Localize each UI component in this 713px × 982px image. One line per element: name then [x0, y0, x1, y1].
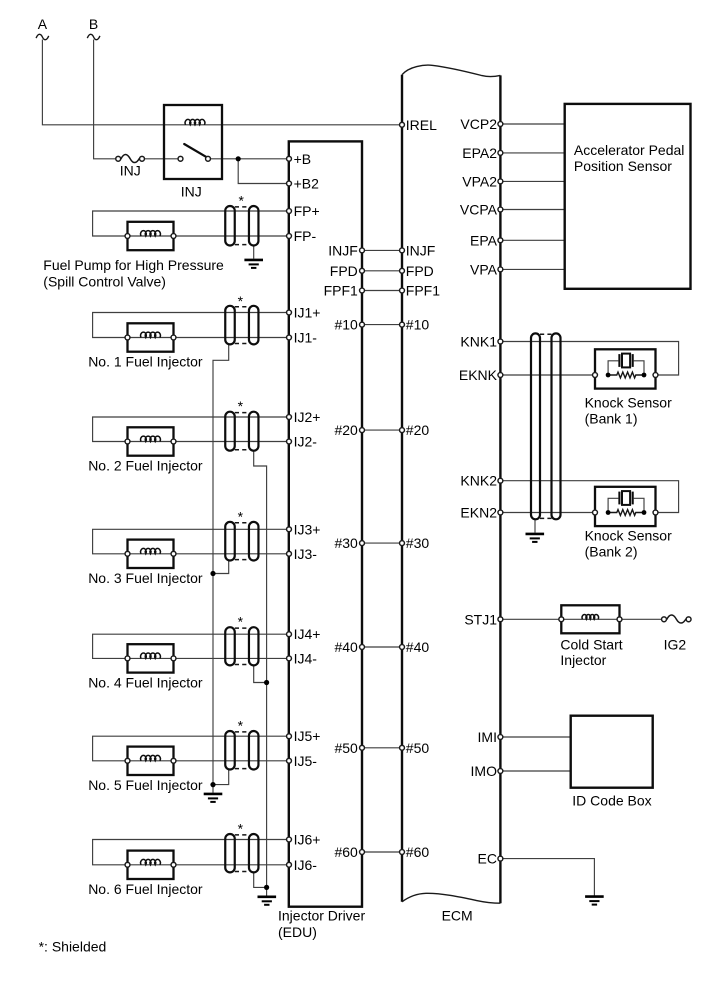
- svg-text:IJ3-: IJ3-: [294, 546, 318, 562]
- svg-text:IJ4+: IJ4+: [294, 626, 321, 642]
- svg-text:Injector: Injector: [560, 652, 606, 668]
- svg-text:IREL: IREL: [406, 117, 437, 133]
- svg-text:EC: EC: [478, 851, 497, 867]
- svg-text:#50: #50: [334, 740, 358, 756]
- svg-text:INJF: INJF: [406, 242, 436, 258]
- svg-text:+B: +B: [294, 151, 312, 167]
- svg-text:VPA2: VPA2: [462, 173, 497, 189]
- svg-text:#20: #20: [406, 422, 430, 438]
- svg-text:#10: #10: [334, 317, 358, 333]
- svg-text:ECM: ECM: [442, 908, 473, 924]
- svg-text:EPA2: EPA2: [462, 145, 497, 161]
- svg-text:VCPA: VCPA: [460, 202, 498, 218]
- svg-text:KNK1: KNK1: [460, 334, 497, 350]
- svg-text:*: Shielded: *: Shielded: [39, 939, 107, 955]
- svg-text:*: *: [238, 293, 244, 309]
- svg-text:No. 2 Fuel Injector: No. 2 Fuel Injector: [88, 458, 203, 474]
- svg-text:#60: #60: [334, 844, 358, 860]
- svg-text:Accelerator Pedal: Accelerator Pedal: [574, 142, 685, 158]
- svg-text:+B2: +B2: [294, 176, 320, 192]
- svg-text:KNK2: KNK2: [460, 473, 497, 489]
- svg-text:IJ5-: IJ5-: [294, 753, 318, 769]
- svg-text:FPF1: FPF1: [406, 283, 440, 299]
- svg-text:FP-: FP-: [294, 228, 317, 244]
- svg-text:EKNK: EKNK: [459, 367, 498, 383]
- svg-text:No. 1 Fuel Injector: No. 1 Fuel Injector: [88, 354, 203, 370]
- svg-text:Knock Sensor: Knock Sensor: [585, 395, 672, 411]
- svg-text:IJ6+: IJ6+: [294, 832, 321, 848]
- svg-text:Cold Start: Cold Start: [560, 636, 622, 652]
- svg-text:IG2: IG2: [664, 636, 687, 652]
- svg-text:#50: #50: [406, 740, 430, 756]
- svg-text:IJ1-: IJ1-: [294, 330, 318, 346]
- svg-text:IJ4-: IJ4-: [294, 650, 318, 666]
- svg-text:No. 5 Fuel Injector: No. 5 Fuel Injector: [88, 777, 203, 793]
- svg-text:FPD: FPD: [406, 263, 434, 279]
- svg-text:*: *: [238, 398, 244, 414]
- svg-text:*: *: [238, 193, 244, 209]
- svg-text:*: *: [238, 820, 244, 836]
- svg-text:No. 4 Fuel Injector: No. 4 Fuel Injector: [88, 674, 203, 690]
- svg-text:*: *: [238, 613, 244, 629]
- svg-text:#60: #60: [406, 844, 430, 860]
- svg-text:#20: #20: [334, 422, 358, 438]
- svg-text:#10: #10: [406, 317, 430, 333]
- svg-text:#40: #40: [334, 639, 358, 655]
- svg-text:IJ3+: IJ3+: [294, 521, 321, 537]
- svg-text:(Spill Control Valve): (Spill Control Valve): [43, 273, 166, 289]
- svg-text:(Bank 2): (Bank 2): [585, 543, 638, 559]
- svg-text:EPA: EPA: [470, 232, 498, 248]
- svg-text:STJ1: STJ1: [464, 611, 497, 627]
- svg-text:Knock Sensor: Knock Sensor: [585, 528, 672, 544]
- svg-text:FPD: FPD: [330, 263, 358, 279]
- svg-text:VCP2: VCP2: [460, 116, 497, 132]
- svg-text:EKN2: EKN2: [460, 505, 497, 521]
- svg-text:INJ: INJ: [181, 183, 202, 199]
- svg-text:No. 6 Fuel Injector: No. 6 Fuel Injector: [88, 881, 203, 897]
- svg-text:ID Code Box: ID Code Box: [572, 793, 651, 809]
- svg-text:*: *: [238, 508, 244, 524]
- svg-text:FPF1: FPF1: [324, 283, 358, 299]
- svg-text:VPA: VPA: [470, 261, 498, 277]
- svg-text:IJ6-: IJ6-: [294, 857, 318, 873]
- svg-text:IJ5+: IJ5+: [294, 728, 321, 744]
- svg-text:IMI: IMI: [478, 729, 497, 745]
- svg-text:#30: #30: [334, 535, 358, 551]
- svg-text:INJ: INJ: [120, 162, 141, 178]
- svg-text:IJ2+: IJ2+: [294, 409, 321, 425]
- svg-text:No. 3 Fuel Injector: No. 3 Fuel Injector: [88, 570, 203, 586]
- svg-text:IJ1+: IJ1+: [294, 305, 321, 321]
- svg-text:(EDU): (EDU): [278, 924, 317, 940]
- svg-text:Position Sensor: Position Sensor: [574, 158, 672, 174]
- svg-text:Fuel Pump for High Pressure: Fuel Pump for High Pressure: [43, 257, 224, 273]
- svg-text:#40: #40: [406, 639, 430, 655]
- svg-text:FP+: FP+: [294, 203, 320, 219]
- svg-text:IJ2-: IJ2-: [294, 434, 318, 450]
- svg-text:B: B: [89, 16, 98, 32]
- svg-text:#30: #30: [406, 535, 430, 551]
- svg-text:Injector Driver: Injector Driver: [278, 908, 365, 924]
- svg-text:IMO: IMO: [471, 763, 498, 779]
- svg-text:(Bank 1): (Bank 1): [585, 410, 638, 426]
- svg-text:A: A: [38, 16, 48, 32]
- svg-text:*: *: [238, 717, 244, 733]
- svg-text:INJF: INJF: [328, 242, 358, 258]
